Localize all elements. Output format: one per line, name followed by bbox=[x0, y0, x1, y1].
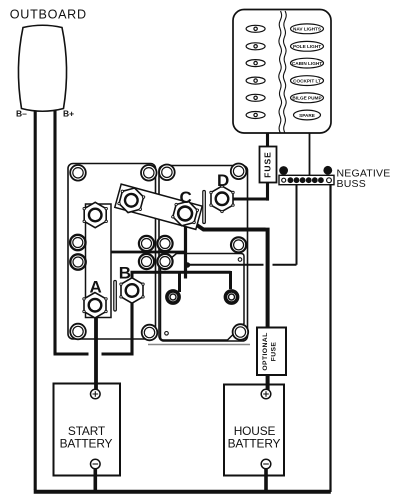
svg-text:NAV LIGHTS: NAV LIGHTS bbox=[293, 27, 321, 32]
strap left hex bbox=[116, 185, 146, 216]
mounting screws U1 bbox=[70, 165, 157, 340]
wire: strip to C junction bbox=[111, 251, 185, 254]
relay coil terminal left bbox=[165, 289, 181, 305]
wire: C vertical down to coil terminal junction bbox=[184, 221, 187, 279]
svg-text:C: C bbox=[180, 188, 192, 207]
junction dot at coil wire bbox=[185, 262, 190, 267]
wire: HOUSE battery - to ground bus bbox=[264, 468, 268, 491]
wire: bottom ground bus bbox=[34, 490, 331, 494]
svg-text:B–: B– bbox=[16, 108, 27, 118]
copper strip bar on U1 bbox=[86, 204, 112, 318]
panel switch ovals bbox=[246, 25, 265, 118]
fuse F1 bbox=[260, 147, 277, 183]
wire: outboard B- to ground bus bbox=[34, 110, 37, 490]
relay coil terminal right bbox=[224, 289, 240, 305]
diagonal strap between U1 strip and terminal C bbox=[115, 184, 202, 229]
terminal B hex bbox=[120, 278, 144, 303]
svg-text:FUSE: FUSE bbox=[263, 151, 273, 178]
terminal A hex bbox=[83, 293, 107, 318]
mounting screws U2 bbox=[157, 164, 248, 340]
battery box: HOUSE BATTERY bbox=[224, 385, 284, 476]
HOUSE battery - terminal bbox=[261, 459, 271, 469]
svg-text:BILGE PUMP: BILGE PUMP bbox=[292, 96, 321, 101]
svg-text:FUSE: FUSE bbox=[271, 342, 278, 362]
wire: panel to negative buss bbox=[309, 132, 311, 176]
slot mark on U2 between C and D bbox=[203, 191, 206, 224]
svg-text:D: D bbox=[217, 171, 229, 190]
battery box: START BATTERY bbox=[54, 384, 121, 476]
relay module U2 (right battery relay body) bbox=[148, 166, 250, 345]
svg-text:SPARE: SPARE bbox=[299, 113, 315, 118]
fuse/switch panel bbox=[233, 10, 331, 134]
svg-text:POLE LIGHT: POLE LIGHT bbox=[293, 44, 321, 49]
svg-text:COCKPIT LT: COCKPIT LT bbox=[293, 78, 321, 83]
wire: outboard B+ down and right to terminal B (hop over A wire) bbox=[54, 110, 134, 356]
wire: D to fuse and fuse to panel bbox=[231, 131, 268, 201]
terminal C hex bbox=[170, 198, 200, 229]
HOUSE battery + terminal bbox=[261, 389, 271, 399]
START battery - terminal bbox=[91, 459, 101, 469]
slot mark on U1 bbox=[114, 281, 117, 312]
svg-text:A: A bbox=[90, 278, 102, 297]
terminal D hex bbox=[210, 185, 234, 213]
wire: C to optional fuse to HOUSE battery + bbox=[190, 221, 268, 391]
relay module U1 (left battery relay body) bbox=[68, 164, 156, 340]
svg-text:BUSS: BUSS bbox=[337, 178, 366, 190]
wire: START battery - to ground bus bbox=[94, 468, 98, 491]
svg-text:BATTERY: BATTERY bbox=[228, 436, 281, 450]
svg-text:OPTIONAL: OPTIONAL bbox=[262, 332, 269, 370]
terminal hex on strip top bbox=[83, 202, 107, 227]
wire: terminal A to START battery + bbox=[94, 314, 98, 390]
svg-text:B+: B+ bbox=[63, 108, 74, 118]
svg-text:OUTBOARD: OUTBOARD bbox=[10, 8, 87, 22]
START battery + terminal bbox=[91, 389, 101, 399]
outboard motor body bbox=[18, 25, 66, 111]
optional fuse F2 bbox=[257, 328, 286, 376]
wire: negative buss to bottom right corner bbox=[329, 184, 331, 492]
panel labels bbox=[291, 24, 324, 120]
negative buss bar bbox=[279, 166, 334, 185]
wire: negative buss to relay coil junction (hop over house + wire) bbox=[188, 184, 297, 265]
svg-text:BATTERY: BATTERY bbox=[60, 436, 113, 450]
svg-text:CABIN LIGHT: CABIN LIGHT bbox=[292, 61, 322, 66]
relay U2 inner cover box bbox=[161, 254, 245, 341]
wire: B up and over to relay coil terminals bbox=[131, 271, 231, 292]
svg-text:B: B bbox=[119, 263, 131, 282]
